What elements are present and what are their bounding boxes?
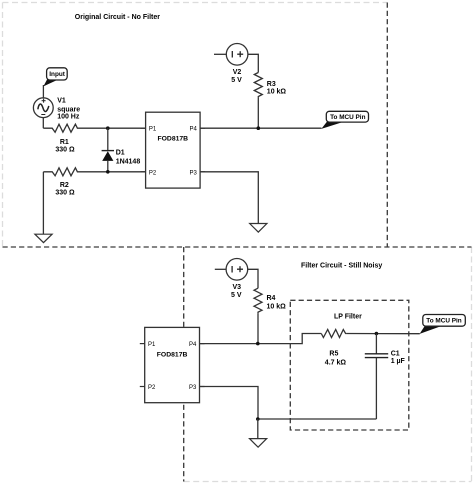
- label V1 square 100 Hz: [57, 97, 80, 120]
- svg-text:To MCU Pin: To MCU Pin: [330, 114, 365, 121]
- node: R5/C1 junction: [375, 332, 379, 336]
- svg-text:R3: R3: [267, 81, 276, 88]
- wire: P4 row to MCU flag: [200, 127, 321, 129]
- svg-text:P1: P1: [149, 127, 157, 133]
- wire: Input flag to V1 top: [42, 85, 44, 98]
- svg-text:Filter Circuit - Still Noisy: Filter Circuit - Still Noisy: [301, 262, 382, 269]
- optocoupler U1 FOD817B: [141, 112, 206, 188]
- svg-text:10 kΩ: 10 kΩ: [267, 303, 287, 310]
- svg-text:Original Circuit - No Filter: Original Circuit - No Filter: [75, 14, 160, 21]
- label R5 4.7 kohm: [325, 351, 347, 367]
- node: R1/D1 junction: [106, 126, 110, 130]
- svg-text:R4: R4: [267, 295, 276, 302]
- svg-text:V3: V3: [233, 284, 242, 291]
- label V3 5 V: [231, 284, 242, 299]
- capacitor C1: [365, 334, 388, 420]
- wire: V2 to R3 top: [248, 54, 258, 72]
- resistor R2: [43, 168, 85, 176]
- wire: U2 P3 to ground node: [200, 387, 259, 420]
- wire: R5 to node and out to MCU flag: [346, 333, 419, 335]
- ground (filter circuit): [250, 439, 267, 448]
- node: R3/P4 junction: [257, 126, 261, 130]
- svg-text:square: square: [57, 106, 80, 113]
- label R4 10 kohm: [267, 295, 287, 310]
- svg-text:100 Hz: 100 Hz: [57, 114, 80, 121]
- node flag To MCU Pin (bottom): [420, 315, 466, 334]
- wire: R2 to P2 of U1: [85, 171, 146, 173]
- canvas border bottom (light dashed): [184, 481, 472, 483]
- svg-text:P1: P1: [148, 342, 156, 348]
- node flag To MCU Pin (top): [321, 111, 368, 129]
- canvas border right (light dashed): [471, 247, 473, 482]
- label D1 1N4148: [116, 150, 141, 166]
- resistor R5: [321, 330, 346, 338]
- resistor R3: [254, 73, 262, 98]
- svg-text:FOD817B: FOD817B: [157, 352, 188, 359]
- LP filter dashed box: [290, 300, 409, 430]
- voltage source V2: [214, 44, 248, 66]
- svg-text:Input: Input: [49, 71, 65, 78]
- node: P3/C1/ground junction: [256, 417, 260, 421]
- svg-text:5 V: 5 V: [231, 292, 242, 299]
- wire: R2 left down to ground: [42, 172, 44, 234]
- wire: R3 bottom to P4 row: [257, 98, 259, 129]
- dashed box edge: Filter Circuit left: [183, 247, 185, 482]
- svg-text:V2: V2: [233, 69, 242, 76]
- optocoupler U2 FOD817B: [140, 327, 205, 402]
- wire: U2 P4 to LP filter (with jog): [200, 334, 322, 344]
- svg-text:V1: V1: [57, 97, 66, 104]
- svg-text:P2: P2: [149, 170, 157, 176]
- svg-text:R2: R2: [60, 182, 69, 189]
- svg-text:R5: R5: [329, 351, 338, 358]
- svg-text:P4: P4: [189, 342, 197, 348]
- label R1 330 ohm: [55, 139, 75, 154]
- svg-text:5 V: 5 V: [231, 77, 242, 84]
- svg-text:1N4148: 1N4148: [116, 158, 141, 165]
- node: D1/R2 junction: [106, 170, 110, 174]
- svg-text:P3: P3: [189, 385, 197, 391]
- wire: node down to ground: [257, 419, 259, 439]
- svg-text:D1: D1: [116, 150, 125, 157]
- wire: V1 bottom to R1: [42, 118, 44, 129]
- svg-text:FOD817B: FOD817B: [157, 136, 188, 143]
- svg-text:P3: P3: [190, 170, 198, 176]
- wire: V3 to R4 top: [248, 269, 258, 288]
- svg-text:To MCU Pin: To MCU Pin: [426, 318, 461, 325]
- dashed box edge: divider y=247: [3, 246, 472, 248]
- ground (input side): [35, 234, 52, 242]
- svg-text:P2: P2: [148, 385, 156, 391]
- svg-text:4.7 kΩ: 4.7 kΩ: [325, 359, 347, 366]
- node: R4/P4 junction: [256, 342, 260, 346]
- wire: P3 to ground: [200, 172, 258, 224]
- svg-text:10 kΩ: 10 kΩ: [267, 88, 287, 95]
- wire: C1 bottom to ground node: [258, 418, 377, 420]
- wire: R1 to P1 of U1: [85, 127, 146, 129]
- label R2 330 ohm: [55, 182, 75, 197]
- label V2 5 V: [231, 69, 242, 84]
- label R3 10 kohm: [267, 81, 287, 95]
- resistor R1: [43, 124, 85, 132]
- svg-text:1 µF: 1 µF: [391, 358, 406, 365]
- ground (U1 output side): [250, 224, 267, 233]
- voltage source V3: [215, 259, 248, 281]
- resistor R4: [254, 288, 262, 313]
- canvas border top (light dashed): [3, 2, 388, 4]
- svg-text:330 Ω: 330 Ω: [55, 147, 75, 154]
- voltage source V1 (square wave): [33, 98, 53, 118]
- diode D1 1N4148: [102, 128, 114, 172]
- dashed box edge: Original Circuit right: [386, 3, 388, 248]
- canvas border left (light dashed): [2, 3, 4, 248]
- label C1 1 uF: [391, 351, 406, 366]
- wire: R4 bottom to P4 node: [257, 313, 259, 343]
- node flag Input: [43, 68, 67, 87]
- svg-text:R1: R1: [60, 139, 69, 146]
- svg-text:330 Ω: 330 Ω: [55, 190, 75, 197]
- svg-text:C1: C1: [391, 351, 400, 358]
- svg-text:P4: P4: [190, 127, 198, 133]
- svg-text:LP Filter: LP Filter: [334, 314, 362, 321]
